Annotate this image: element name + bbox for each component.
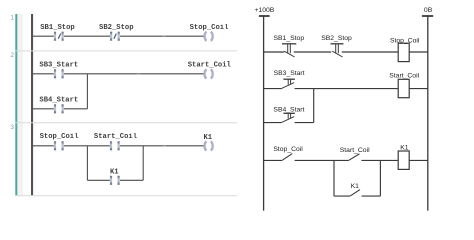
rung 1 wire tick <box>162 35 165 37</box>
pushbutton SB3_Start (NO) <box>282 79 295 88</box>
svg-text:SB1_Stop: SB1_Stop <box>273 35 304 42</box>
rung 3 wire <box>33 145 204 147</box>
row 2 branch vertical (SB4 parallel) <box>313 89 315 123</box>
rung separator 2 <box>15 122 237 124</box>
svg-text:Start_Coil: Start_Coil <box>94 133 138 141</box>
svg-text:K1: K1 <box>400 144 409 151</box>
node 0B terminal bar <box>422 15 433 17</box>
label K1 (contact) <box>351 183 360 190</box>
contact SB4_Start (NO) <box>39 96 78 113</box>
svg-text:SB2_Stop: SB2_Stop <box>321 35 352 42</box>
label Stop_Coil (coil, row 1) <box>390 38 420 45</box>
contact SB3_Start (NO) <box>39 61 78 78</box>
svg-text:3: 3 <box>11 124 15 131</box>
svg-text:SB4_Start: SB4_Start <box>273 106 304 113</box>
SB4 branch wire <box>264 122 314 124</box>
rung 3 branch wire <box>87 179 143 181</box>
svg-text:+100B: +100B <box>254 7 274 14</box>
label SB3_Start <box>274 70 305 77</box>
row 2 wire <box>264 88 428 90</box>
relay contact K1 (NO, latch) <box>350 190 360 196</box>
label SB1_Stop <box>273 35 304 42</box>
rung number 1 <box>11 15 15 22</box>
left supply rail (+100B) <box>263 16 265 211</box>
row 4 branch vertical right <box>379 160 381 196</box>
K1 latch branch wire <box>334 195 380 197</box>
row 4 wire <box>264 159 428 161</box>
rung 2 wire tick <box>137 73 140 75</box>
ladder left guide line (teal) <box>15 14 17 195</box>
rung 2 branch vertical <box>86 74 88 109</box>
relay contact Stop_Coil (NO) <box>282 154 292 161</box>
contact SB1_Stop (NC) <box>40 24 75 41</box>
rung separator 3 <box>15 195 237 197</box>
label SB4_Start <box>273 106 304 113</box>
relay coil K1 <box>398 151 409 169</box>
rung number 3 <box>11 124 15 131</box>
label SB2_Stop <box>321 35 352 42</box>
rung 1 wire <box>33 35 204 37</box>
label Stop_Coil (contact, row 4) <box>273 146 303 153</box>
relay coil Start_Coil <box>398 79 409 97</box>
ladder left power rail <box>31 14 33 195</box>
pushbutton SB2_Stop (NC) <box>331 44 344 57</box>
svg-text:0B: 0B <box>424 7 433 14</box>
contact Start_Coil (NO) <box>94 133 138 150</box>
row 1 wire <box>264 51 428 53</box>
node +100B terminal bar <box>259 15 270 17</box>
svg-text:Stop_Coil: Stop_Coil <box>190 24 230 32</box>
right return rail (0B) <box>427 16 429 211</box>
pushbutton SB1_Stop (NC) <box>282 44 296 57</box>
rung 2 branch wire <box>33 108 87 110</box>
svg-text:Stop_Coil: Stop_Coil <box>40 133 80 141</box>
svg-text:Stop_Coil: Stop_Coil <box>273 146 303 153</box>
relay contact Start_Coil (NO) <box>349 154 359 160</box>
contact Stop_Coil (NO) <box>40 133 80 150</box>
svg-text:SB1_Stop: SB1_Stop <box>40 24 75 32</box>
label Start_Coil (contact, row 4) <box>340 147 370 154</box>
svg-text:SB3_Start: SB3_Start <box>274 70 305 77</box>
rung 3 branch vertical left <box>86 146 88 181</box>
svg-text:SB3_Start: SB3_Start <box>39 61 78 69</box>
node 0B label <box>424 7 433 14</box>
svg-text:Stop_Coil: Stop_Coil <box>390 38 420 45</box>
coil K1 <box>203 134 212 151</box>
relay coil Stop_Coil <box>398 43 409 61</box>
svg-text:Start_Coil: Start_Coil <box>389 72 419 79</box>
rung 3 branch vertical right <box>142 146 144 181</box>
svg-text:SB2_Stop: SB2_Stop <box>99 24 134 32</box>
contact K1 (NO, latch branch) <box>110 169 120 185</box>
ladder editor margin strip <box>17 14 23 195</box>
svg-text:SB4_Start: SB4_Start <box>39 96 78 104</box>
svg-text:K1: K1 <box>351 183 360 190</box>
rung number 2 <box>11 52 15 59</box>
pushbutton SB4_Start (NO) <box>282 113 295 122</box>
rung separator 1 <box>15 50 237 52</box>
node +100B label <box>254 7 274 14</box>
rung 3 wire tick <box>163 145 166 147</box>
label K1 (coil) <box>400 144 409 151</box>
coil Start_Coil <box>188 61 232 78</box>
coil Stop_Coil <box>190 24 230 41</box>
row 4 branch vertical left <box>333 160 335 196</box>
svg-text:1: 1 <box>11 15 15 22</box>
rung 2 wire <box>33 73 204 75</box>
svg-text:2: 2 <box>11 52 15 59</box>
svg-text:K1: K1 <box>110 169 119 177</box>
label Start_Coil (coil, row 2) <box>389 72 419 79</box>
contact SB2_Stop (NC) <box>99 24 134 41</box>
svg-text:Start_Coil: Start_Coil <box>188 61 232 69</box>
svg-text:Start_Coil: Start_Coil <box>340 147 370 154</box>
